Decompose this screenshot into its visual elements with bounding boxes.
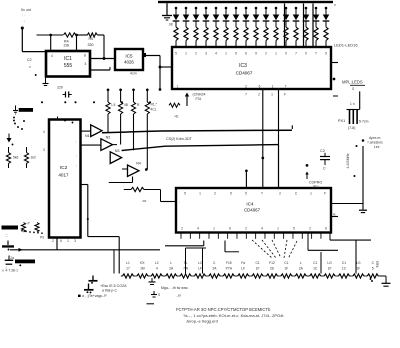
note line 3	[78, 295, 81, 297]
svg-text:(7-8): (7-8)	[348, 126, 355, 130]
svg-text:2.: 2.	[213, 261, 216, 265]
resistor R4	[63, 33, 75, 37]
svg-text:2: 2	[245, 227, 247, 231]
svg-text:.08: .08	[168, 23, 173, 27]
resistor pull-up column 4	[146, 88, 149, 91]
wire: addr line 3	[245, 169, 248, 172]
ground	[362, 204, 364, 210]
wire: IC3 pin to IC4 (addr line 2)	[278, 89, 280, 188]
svg-text:6: 6	[259, 85, 261, 89]
capacitor small 2	[153, 291, 155, 294]
svg-text:FCTPTH-AR 3O NPC.CPY/CTMCTOP B: FCTPTH-AR 3O NPC.CPY/CTMCTOP BCEMICTb	[176, 307, 271, 312]
svg-text:2: 2	[309, 227, 311, 231]
svg-text::: :	[76, 154, 77, 158]
svg-text:JP1L: JP1L	[312, 185, 320, 189]
LED6 with series resistor	[225, 7, 228, 10]
svg-text:5: 5	[230, 192, 232, 196]
svg-text:4.433MHz: 4.433MHz	[346, 153, 350, 168]
ground	[382, 282, 391, 284]
svg-text:4017: 4017	[58, 173, 69, 178]
junction	[103, 57, 106, 60]
svg-text:C1: C1	[284, 261, 288, 265]
svg-text:COPRO: COPRO	[309, 181, 322, 185]
svg-text:P7A: P7A	[226, 267, 233, 271]
svg-text:IC5: IC5	[125, 54, 133, 59]
svg-text:2: 2	[265, 52, 267, 56]
wire: IC3 pin to IC4 (addr line 1)	[262, 89, 264, 188]
svg-text:1M: 1M	[140, 267, 145, 271]
svg-text:2: 2	[195, 52, 197, 56]
wire: IC1 pin3 to IC5	[90, 58, 115, 60]
svg-text:5-7cm: 5-7cm	[359, 120, 369, 124]
svg-text:1: 1	[185, 52, 187, 56]
svg-text:C2: C2	[320, 149, 325, 153]
svg-text:T: T	[261, 192, 263, 196]
buffer N2	[101, 139, 113, 151]
wire	[159, 56, 161, 90]
resistor R9 bottom row	[236, 275, 238, 277]
LED7 with series resistor	[235, 7, 238, 10]
resistor R11 bottom row	[265, 275, 267, 277]
wire bus right 2	[308, 249, 338, 251]
svg-text:0: 0	[285, 52, 287, 56]
wire	[76, 34, 88, 36]
wire	[22, 51, 46, 53]
svg-text:IC3: IC3	[239, 63, 247, 69]
power bar rail	[158, 1, 333, 3]
wire: IC2 to N1	[81, 130, 91, 132]
svg-text:1: 1	[213, 227, 215, 231]
resistor R5	[87, 33, 97, 37]
resistor	[35, 223, 39, 233]
LED3 with series resistor	[195, 7, 198, 10]
svg-text:17: 17	[126, 267, 130, 271]
svg-text:4B: 4B	[124, 103, 128, 107]
svg-text:4: 4	[43, 130, 45, 134]
svg-text:co: co	[143, 199, 147, 203]
resistor R16 bottom row	[337, 275, 339, 277]
svg-text:F31: F31	[196, 97, 202, 101]
resistor R15 bottom row	[322, 275, 324, 277]
op IC4 CD4067 box	[176, 188, 331, 233]
ground	[15, 106, 17, 111]
svg-text:4026: 4026	[124, 60, 134, 65]
resistor R6 bottom row	[193, 275, 195, 277]
svg-text:Lex: Lex	[374, 145, 380, 149]
capacitor marks	[13, 117, 15, 119]
svg-text:?a.-., 1 co?pa-eteb. KOt-m-et-: ?a.-., 1 co?pa-eteb. KOt-m-et-c. Kda-ma-…	[183, 313, 284, 318]
feed wires	[113, 250, 115, 274]
resistor at N4 output	[124, 189, 131, 191]
resistor R1 bottom row	[121, 275, 123, 277]
resistor	[26, 147, 28, 153]
svg-text:7: 7	[245, 93, 247, 97]
LED1 with series resistor	[175, 7, 178, 10]
sensor arrow below IC3	[186, 96, 188, 107]
wire: IC2 to N2	[81, 144, 101, 146]
wire	[307, 233, 309, 250]
svg-text:330: 330	[88, 43, 94, 47]
svg-text:+E: +E	[174, 115, 179, 119]
svg-text:1: 1	[272, 85, 274, 89]
svg-text:1 n: 1 n	[350, 102, 355, 106]
svg-text:R.: R.	[137, 103, 140, 107]
svg-text:4CL: 4CL	[151, 108, 157, 112]
svg-text:Mga-. ..th tw wrw..: Mga-. ..th tw wrw..	[161, 286, 189, 290]
wire feeds left	[203, 241, 205, 246]
resistor R17 bottom row	[351, 275, 353, 277]
wire: IC4 right pin to vertical	[331, 203, 363, 205]
resistor R3 bottom row	[150, 275, 152, 277]
wire: rail to IC3 top pin 1	[284, 4, 286, 47]
resistor R7 bottom row	[207, 275, 209, 277]
svg-text:220: 220	[57, 86, 63, 90]
svg-text::: :	[179, 200, 180, 204]
LED11 with series resistor	[275, 7, 278, 10]
svg-text:N3: N3	[115, 149, 120, 153]
LED15 with series resistor	[315, 7, 318, 10]
svg-text:1: 1	[277, 227, 279, 231]
wire: top supply rail to IC1	[37, 34, 64, 36]
svg-text:IC4: IC4	[246, 202, 254, 207]
svg-text::: :	[76, 164, 77, 168]
wire	[50, 35, 52, 51]
svg-text:5: 5	[325, 52, 327, 56]
svg-text:5: 5	[175, 52, 177, 56]
resistor horizontal small	[169, 103, 180, 107]
svg-text:a , ;)Te+vagc-.P.: a , ;)Te+vagc-.P.	[82, 294, 107, 298]
wire: N4 input stub	[122, 168, 128, 170]
capacitor small	[151, 278, 153, 282]
junction	[159, 66, 162, 69]
buffer N1	[91, 125, 102, 137]
wire	[278, 145, 280, 188]
piezo PX1	[347, 109, 360, 111]
wire to IC2 bottom	[56, 239, 58, 250]
svg-text:L1: L1	[126, 261, 130, 265]
resistor R13 bottom row	[294, 275, 296, 277]
op IC1 555 timer box	[46, 51, 90, 77]
pin stub	[143, 53, 147, 57]
svg-text:3: 3	[85, 62, 87, 66]
svg-text:1: 1	[177, 85, 179, 89]
wire bus line A	[102, 130, 292, 133]
resistor	[21, 223, 25, 233]
svg-text:7: 7	[285, 85, 287, 89]
inverted label block sensor	[2, 226, 19, 230]
svg-text:K&S: K&S	[376, 260, 380, 267]
wire	[97, 34, 104, 36]
svg-text:2: 2	[279, 192, 281, 196]
svg-text:5: 5	[372, 267, 374, 271]
resistor R12 bottom row	[279, 275, 281, 277]
resistor R14 bottom row	[308, 275, 310, 277]
svg-text:6: 6	[325, 227, 327, 231]
svg-text:1: 1	[225, 52, 227, 56]
wire: into IC4 left pin	[161, 201, 177, 203]
svg-text:CD4067: CD4067	[236, 71, 253, 76]
svg-text:555: 555	[64, 63, 73, 69]
svg-text:(CNH24: (CNH24	[193, 93, 206, 97]
wire: to IC3 left pin	[160, 66, 172, 68]
wire bus line B	[122, 145, 279, 151]
svg-text:a that p-C: a that p-C	[102, 289, 117, 293]
wire with arrow	[10, 249, 160, 251]
svg-text:2: 2	[245, 85, 247, 89]
svg-text:0: 0	[305, 52, 307, 56]
svg-text:. ;: . ;	[22, 19, 25, 23]
note above IC4 right	[306, 164, 309, 167]
resistor R18 bottom row	[366, 275, 368, 277]
svg-text:7: 7	[295, 52, 297, 56]
LED13 with series resistor	[295, 7, 298, 10]
wire	[76, 35, 78, 51]
junction: output node	[21, 26, 24, 29]
LED2 with series resistor	[185, 7, 188, 10]
wire: rail to IC3 top pin 3	[312, 4, 314, 47]
resistor	[8, 147, 10, 153]
svg-text:1: 1	[275, 52, 277, 56]
svg-text:N2: N2	[106, 136, 111, 140]
wire: IC1 pin7 stub	[90, 69, 110, 71]
svg-text:4: 4	[197, 227, 199, 231]
wire	[21, 28, 23, 52]
svg-text:R5: R5	[89, 37, 93, 41]
svg-text:Pd: Pd	[40, 236, 44, 240]
svg-text:1: 1	[271, 93, 273, 97]
svg-text:T: T	[315, 52, 317, 56]
resistor R4 bottom row	[164, 275, 166, 277]
svg-text:Apre-m: Apre-m	[369, 136, 381, 140]
svg-text:x: x	[334, 3, 336, 7]
svg-text:5v out: 5v out	[21, 8, 32, 12]
svg-text:5k6: 5k6	[13, 156, 18, 160]
wire crossover bundle (dashed)	[252, 240, 272, 258]
pin stub IC3 right	[331, 62, 338, 64]
pin stub IC4 right 2	[331, 216, 338, 218]
svg-text:L2: L2	[198, 261, 202, 265]
svg-text:v. 4-7.38-1: v. 4-7.38-1	[2, 269, 18, 273]
resistor R10 bottom row	[250, 275, 252, 277]
svg-text:3: 3	[205, 52, 207, 56]
svg-text:C1: C1	[255, 261, 259, 265]
svg-text:2: 2	[214, 192, 216, 196]
op IC3 CD4067 box	[172, 47, 331, 89]
svg-text:9: 9	[255, 52, 257, 56]
svg-text:LF: LF	[241, 267, 245, 271]
junction	[75, 34, 78, 37]
svg-text:1F: 1F	[284, 267, 288, 271]
wire: piezo to IC4 right pin	[362, 139, 365, 142]
svg-text:2a: 2a	[10, 256, 14, 260]
LED9 with series resistor	[255, 7, 258, 10]
svg-text:F12: F12	[269, 261, 275, 265]
svg-text:6: 6	[60, 239, 62, 243]
svg-text:3: 3	[43, 148, 45, 152]
LED4 with series resistor	[205, 7, 208, 10]
svg-text:1F: 1F	[256, 267, 260, 271]
svg-text:LED1-LED16: LED1-LED16	[334, 43, 358, 48]
svg-text:R1.*: R1.*	[151, 103, 158, 107]
ground at rail	[166, 3, 168, 15]
svg-text:CS|2| Kdm-3DT: CS|2| Kdm-3DT	[166, 137, 193, 141]
resistor pull-up column 1	[107, 88, 110, 91]
resistor R5 bottom row	[178, 275, 180, 277]
svg-text:N4: N4	[136, 162, 141, 166]
svg-text:1: 1	[67, 239, 69, 243]
buffer N4	[128, 165, 140, 177]
resistor R2 bottom row	[135, 275, 137, 277]
svg-text:5: 5	[184, 192, 186, 196]
svg-text:L2: L2	[155, 261, 159, 265]
junction	[159, 88, 162, 91]
svg-text:4: 4	[215, 52, 217, 56]
svg-text:Fa: Fa	[241, 261, 245, 265]
ground triangle	[8, 134, 10, 139]
wire: IC2 pin to bottom resistor row	[81, 184, 88, 186]
LED5 with series resistor	[215, 7, 218, 10]
junction	[145, 168, 148, 171]
svg-text::: :	[76, 140, 77, 144]
svg-text:Ix: Ix	[333, 213, 336, 217]
wire	[359, 91, 361, 109]
svg-text:22k: 22k	[64, 44, 70, 48]
inverted label block 2	[15, 260, 35, 264]
svg-text:1: 1	[310, 192, 312, 196]
svg-text:N1: N1	[85, 134, 90, 138]
svg-text:LF: LF	[198, 267, 202, 271]
svg-text:x: x	[29, 65, 31, 69]
wire: rail to IC3 top pin 2	[303, 4, 305, 47]
svg-text:IC2: IC2	[60, 165, 68, 171]
capacitor bold mid-left	[88, 284, 90, 290]
svg-text:4cm: 4cm	[130, 72, 137, 76]
junction	[49, 34, 52, 37]
svg-text:3: 3	[74, 239, 76, 243]
LED12 with series resistor	[285, 7, 288, 10]
svg-text:CD4067: CD4067	[244, 208, 261, 213]
svg-text:+Esu IE.5 CO2A: +Esu IE.5 CO2A	[100, 284, 127, 288]
svg-text:2: 2	[258, 93, 260, 97]
resistor pull-up column 3	[132, 88, 135, 91]
svg-text:4: 4	[156, 267, 158, 271]
svg-text:1F: 1F	[328, 267, 332, 271]
svg-text:F15: F15	[226, 261, 232, 265]
svg-text:1C: 1C	[342, 267, 347, 271]
inverted label block top	[19, 108, 33, 112]
svg-text:L: L	[300, 261, 302, 265]
svg-text:?.arrestors: ?.arrestors	[367, 141, 383, 145]
svg-text:..el: ..el	[176, 294, 181, 298]
wire to ground bottom right	[380, 275, 386, 277]
svg-text:1.5: 1.5	[111, 103, 116, 107]
svg-text:6: 6	[229, 227, 231, 231]
wire: IC5 out	[146, 55, 160, 57]
svg-text:8: 8	[84, 54, 86, 58]
ground: IC1 pin1	[45, 78, 47, 84]
svg-text:4: 4	[261, 227, 263, 231]
wire	[103, 35, 105, 59]
svg-text:4: 4	[51, 54, 53, 58]
LED14 with series resistor	[305, 7, 308, 10]
LED16 with series resistor	[325, 7, 328, 10]
resistor R8 bottom row	[222, 275, 224, 277]
wire: N4 down-left	[132, 177, 134, 183]
resistor pull-up column 2	[119, 88, 122, 91]
svg-text:MPL:LEDS: MPL:LEDS	[342, 80, 363, 85]
svg-text:LG: LG	[327, 261, 332, 265]
LED10 with series resistor	[265, 7, 268, 10]
buffer N3	[110, 152, 121, 164]
svg-text:5: 5	[293, 227, 295, 231]
svg-text:L: L	[170, 261, 172, 265]
svg-text:LG: LG	[356, 261, 361, 265]
capacitor row dots	[41, 101, 43, 103]
svg-text:2: 2	[52, 239, 54, 243]
svg-text:PX1: PX1	[338, 119, 345, 123]
svg-text:IC1: IC1	[64, 56, 72, 62]
stub above IC2	[57, 117, 59, 120]
op IC5 counter box	[115, 49, 143, 70]
wire bus right 1	[330, 239, 371, 241]
svg-text:F: F	[324, 192, 326, 196]
svg-text:6: 6	[245, 52, 247, 56]
svg-text:C: C	[323, 167, 326, 171]
svg-text:1F: 1F	[356, 267, 360, 271]
svg-text:: .: : .	[22, 13, 25, 17]
svg-text::::: :::	[5, 234, 8, 238]
svg-text:C1: C1	[342, 261, 346, 265]
svg-text:5: 5	[245, 192, 247, 196]
capacitor bold mid-left upper	[92, 276, 94, 281]
svg-text:1k2: 1k2	[31, 156, 36, 160]
svg-text:1C: 1C	[313, 267, 318, 271]
svg-text:2: 2	[181, 227, 183, 231]
svg-text:Jerop.-e tregg.erd: Jerop.-e tregg.erd	[186, 318, 218, 323]
op IC2 decade counter box	[49, 120, 81, 238]
svg-text:C2: C2	[27, 58, 32, 62]
LED8 with series resistor	[245, 7, 248, 10]
wire	[355, 240, 357, 273]
capacitor to ground	[7, 241, 9, 246]
IC4 bottom pin stubs	[180, 233, 182, 239]
svg-text:5: 5	[235, 52, 237, 56]
svg-text:C1: C1	[313, 261, 317, 265]
svg-text:1: 1	[199, 192, 201, 196]
wire	[329, 233, 331, 240]
svg-text:F: F	[284, 93, 286, 97]
